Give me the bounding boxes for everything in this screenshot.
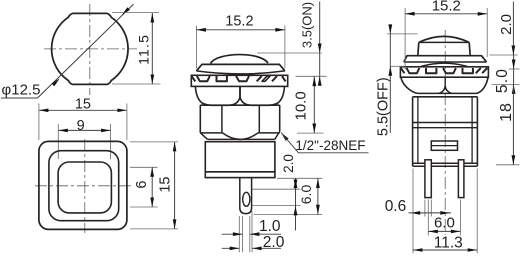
hex nut right corner chamfer [275, 132, 280, 140]
extension line bottom of right 15 [130, 228, 178, 230]
extension line bottom of 11.5 [112, 83, 161, 85]
dimension line 11.3 [413, 248, 477, 252]
cap skirt bottom line right view [418, 92, 477, 94]
dimension 2.0 left segment [222, 247, 239, 251]
svg-text:6.0: 6.0 [298, 185, 314, 205]
dimension line 6.0 vertical [316, 178, 320, 214]
extension line slot bottom [253, 205, 301, 207]
svg-text:6.0: 6.0 [434, 215, 455, 232]
dimension line right 15.2 [405, 12, 487, 16]
svg-text:15: 15 [157, 177, 173, 193]
label 9 [77, 118, 85, 134]
label 6.0 rotated middle [298, 185, 314, 205]
extension line right of 9 [110, 124, 112, 159]
cap rim plate right view [404, 56, 487, 62]
hex nut left facet bottom [200, 132, 222, 134]
knurled flange band [191, 75, 287, 86]
label 1.0 [259, 218, 281, 235]
body division line lower [413, 127, 478, 129]
dimension line 3.5(ON) [318, 2, 322, 86]
terminal slot hole [243, 192, 250, 206]
dimension 1.0 left segment [222, 232, 243, 236]
label 15.2 middle [225, 13, 253, 29]
label 15 rotated [157, 177, 173, 193]
label 1/2-28NEF [295, 138, 365, 153]
extension line right of 15 [126, 104, 128, 141]
cap skirt right lobe right view [477, 77, 489, 93]
pin extension line outer-left [238, 216, 240, 252]
dimension line 9 [58, 129, 110, 133]
label 2.0 right rotated [498, 14, 515, 35]
pin edge extension left [424, 200, 426, 217]
label 10.0 rotated [293, 91, 310, 120]
svg-text:0.6: 0.6 [385, 198, 407, 215]
dome cap top [211, 55, 269, 64]
body extension right [476, 169, 478, 254]
pin center extension left [427, 200, 429, 236]
outer square bezel [39, 141, 127, 229]
dimension line 11.5 [151, 13, 155, 84]
hex nut right facet bottom [258, 132, 280, 134]
extension line pin bottom [254, 213, 323, 215]
round button outline with flats [52, 13, 128, 84]
extension line left of 15 [38, 104, 40, 141]
dimension line 5.0 [512, 55, 516, 94]
extension left of right 15.2 [404, 8, 406, 70]
extension right of right 15.2 [486, 8, 488, 57]
label φ12.5 [2, 81, 41, 98]
pin edge extension right [430, 200, 432, 217]
centerline horizontal of round view [44, 48, 137, 50]
diameter leader line [38, 4, 134, 98]
body bottom edge [413, 163, 478, 166]
cap skirt center split [439, 77, 452, 93]
knurl pattern right view [401, 68, 487, 73]
centerline vertical of right view [444, 30, 446, 235]
extension knob top [387, 33, 417, 35]
extension line band top [296, 75, 327, 77]
hex nut left corner chamfer [200, 133, 207, 140]
dimension line 6 [150, 167, 154, 207]
svg-text:2.0: 2.0 [498, 14, 515, 35]
cap skirt left lobe [195, 86, 240, 105]
extension line top of 11.5 [112, 11, 159, 13]
switch body right wall [472, 97, 477, 166]
extension line dome top [257, 52, 322, 54]
label 2.0 rotated middle [281, 154, 296, 173]
label 3.5(ON) rotated [300, 2, 315, 48]
dimension line 2.0 vertical [294, 178, 298, 230]
hex nut inner facet line right [258, 105, 260, 133]
extension band top right [509, 68, 520, 70]
dimension line 10.0 [312, 76, 316, 133]
cap skirt left lobe right view [401, 77, 418, 93]
svg-text:10.0: 10.0 [293, 91, 310, 120]
switch body left wall [413, 97, 418, 166]
hex nut right edge [279, 105, 281, 131]
centerline vertical of square view [84, 139, 86, 233]
svg-text:2.0: 2.0 [263, 234, 285, 251]
bushing bottom collar [205, 172, 275, 178]
button knob dome (popped up OFF) [419, 36, 469, 42]
cap skirt right lobe [240, 86, 284, 105]
left terminal pin right view [425, 160, 431, 198]
label 2.0 bottom [263, 234, 285, 251]
label 15 top [75, 96, 91, 112]
cap underside dome curve [421, 63, 467, 66]
svg-text:15.2: 15.2 [225, 13, 253, 29]
extension line cylinder bottom [277, 177, 322, 179]
label 11.5 rotated [136, 34, 152, 65]
cap rim plate [196, 64, 285, 74]
svg-text:6: 6 [134, 181, 150, 189]
pin extension line inner-left [242, 216, 244, 252]
arrowhead at lower-left of circle [52, 78, 60, 86]
svg-text:φ12.5: φ12.5 [2, 81, 41, 98]
knurl pattern on flange band [192, 76, 286, 81]
hex nut top edge [200, 104, 279, 106]
dimension line 15 right [173, 142, 177, 229]
leader arrow to thread [281, 133, 289, 141]
leader underline [1, 97, 38, 99]
svg-text:15: 15 [75, 96, 91, 112]
extension rim bottom left [390, 65, 404, 67]
extension line right of 15.2 [284, 26, 286, 69]
svg-text:5.0: 5.0 [494, 68, 511, 93]
dimension line 5.5(OFF) [388, 24, 392, 133]
svg-text:3.5(ON): 3.5(ON) [300, 2, 315, 48]
body division line upper [413, 122, 478, 124]
label 18 rotated [498, 102, 515, 122]
dimension 1.0 right segment [250, 232, 281, 236]
hex nut inner facet line left [221, 105, 223, 133]
extension body bottom right [496, 164, 520, 166]
extension line hex bottom [297, 132, 324, 134]
svg-text:1/2"-28NEF: 1/2"-28NEF [295, 138, 365, 153]
dimension line 2.0 right [512, 2, 516, 56]
extension line top of 6 [130, 166, 158, 168]
leader line for thread callout [281, 133, 369, 153]
hex nut center chamfer arc [223, 133, 258, 140]
pin center extension right [459, 200, 461, 236]
svg-text:5.5(OFF): 5.5(OFF) [376, 77, 392, 136]
centerline vertical of round view [89, 4, 91, 95]
svg-text:18: 18 [498, 102, 515, 122]
label 0.6 [385, 198, 407, 215]
extension rim top right [490, 54, 518, 56]
marking slot on body [431, 141, 457, 150]
terminal pin (middle view) [240, 178, 252, 214]
extension line slot top [253, 188, 301, 190]
svg-text:15.2: 15.2 [432, 0, 461, 15]
dimension line 15.2 [196, 28, 285, 32]
body extension left [412, 169, 414, 254]
extension line top of right 15 [130, 141, 178, 143]
extension band bottom right [492, 83, 520, 85]
threaded bushing body [205, 142, 275, 172]
svg-text:11.5: 11.5 [136, 34, 152, 65]
svg-text:2.0: 2.0 [281, 154, 296, 173]
label 5.5(OFF) rotated [376, 77, 392, 136]
label 6.0 right [434, 215, 455, 232]
middle square bezel step [49, 151, 119, 221]
label 6 rotated [134, 181, 150, 189]
hex nut left edge [199, 105, 201, 133]
centerline horizontal of square view [35, 185, 131, 187]
dimension line 18 [512, 84, 516, 164]
dimension 2.0 right segment [252, 247, 281, 251]
switch body top edge [413, 96, 478, 98]
dimension 0.6 line [409, 211, 452, 215]
right terminal pin right view [458, 160, 464, 198]
dimension line 6.0 right [428, 230, 460, 234]
label 5.0 rotated [494, 68, 511, 93]
extension line bottom of 6 [130, 206, 158, 208]
knurled band right view [400, 67, 488, 77]
label 15.2 right [432, 0, 461, 15]
hex nut bottom edge [208, 138, 275, 140]
arrowhead at upper-right of circle [122, 7, 130, 15]
label 11.3 [434, 234, 463, 251]
button knob base [418, 42, 470, 55]
inner square button [58, 162, 111, 213]
svg-text:11.3: 11.3 [434, 234, 463, 251]
pin extension line inner-right [249, 216, 251, 252]
extension line left of 9 [57, 124, 59, 159]
extension line left of 15.2 [195, 26, 197, 69]
dimension line 15 above square [39, 109, 127, 113]
svg-text:9: 9 [77, 118, 85, 134]
pin extension line outer-right [251, 211, 253, 252]
svg-text:1.0: 1.0 [259, 218, 281, 235]
